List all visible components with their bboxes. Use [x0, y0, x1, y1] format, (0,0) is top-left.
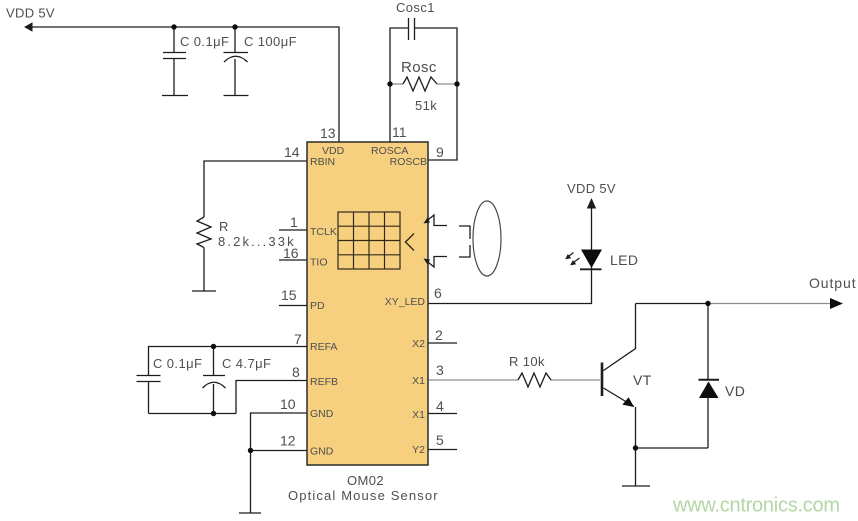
svg-text:Output: Output: [809, 275, 856, 291]
svg-text:RBIN: RBIN: [310, 156, 335, 168]
svg-text:Optical Mouse Sensor: Optical Mouse Sensor: [288, 488, 438, 503]
svg-text:7: 7: [294, 331, 302, 347]
svg-text:11: 11: [392, 124, 407, 140]
svg-text:C 0.1μF: C 0.1μF: [153, 356, 202, 371]
svg-text:ROSCB: ROSCB: [390, 156, 427, 168]
svg-text:9: 9: [436, 144, 444, 160]
svg-text:OM02: OM02: [347, 473, 384, 488]
svg-text:TIO: TIO: [310, 257, 328, 269]
svg-text:GND: GND: [310, 446, 334, 458]
svg-text:REFB: REFB: [310, 376, 338, 388]
svg-text:GND: GND: [310, 408, 334, 420]
svg-text:R: R: [219, 219, 229, 234]
svg-text:VD: VD: [725, 383, 745, 399]
svg-text:C 100μF: C 100μF: [244, 34, 297, 49]
svg-text:VDD 5V: VDD 5V: [567, 181, 616, 196]
svg-text:X1: X1: [412, 375, 425, 387]
svg-text:2: 2: [435, 327, 443, 343]
svg-text:www.cntronics.com: www.cntronics.com: [672, 495, 840, 517]
svg-text:Cosc1: Cosc1: [396, 0, 435, 15]
svg-text:Y2: Y2: [412, 444, 425, 456]
svg-text:15: 15: [281, 287, 297, 303]
svg-text:TCLK: TCLK: [310, 226, 337, 238]
svg-text:8: 8: [292, 364, 300, 380]
svg-text:REFA: REFA: [310, 341, 337, 353]
svg-text:VT: VT: [633, 372, 652, 388]
svg-text:51k: 51k: [415, 98, 437, 113]
svg-text:Rosc: Rosc: [401, 59, 437, 76]
svg-text:6: 6: [434, 285, 442, 301]
svg-text:14: 14: [284, 144, 300, 160]
svg-text:1: 1: [290, 214, 298, 230]
svg-text:PD: PD: [310, 300, 325, 312]
svg-text:3: 3: [436, 362, 444, 378]
svg-text:R 10k: R 10k: [509, 354, 545, 369]
svg-text:VDD 5V: VDD 5V: [6, 6, 55, 21]
svg-text:4: 4: [436, 398, 444, 414]
svg-text:12: 12: [280, 433, 296, 449]
svg-text:X1: X1: [412, 409, 425, 421]
svg-text:16: 16: [283, 245, 299, 261]
svg-text:XY_LED: XY_LED: [385, 296, 426, 308]
svg-text:5: 5: [436, 432, 444, 448]
svg-text:LED: LED: [610, 252, 638, 268]
svg-text:13: 13: [320, 125, 336, 141]
svg-text:X2: X2: [412, 338, 425, 350]
svg-text:C 4.7μF: C 4.7μF: [222, 356, 271, 371]
svg-text:C 0.1μF: C 0.1μF: [180, 34, 229, 49]
svg-text:10: 10: [280, 396, 296, 412]
